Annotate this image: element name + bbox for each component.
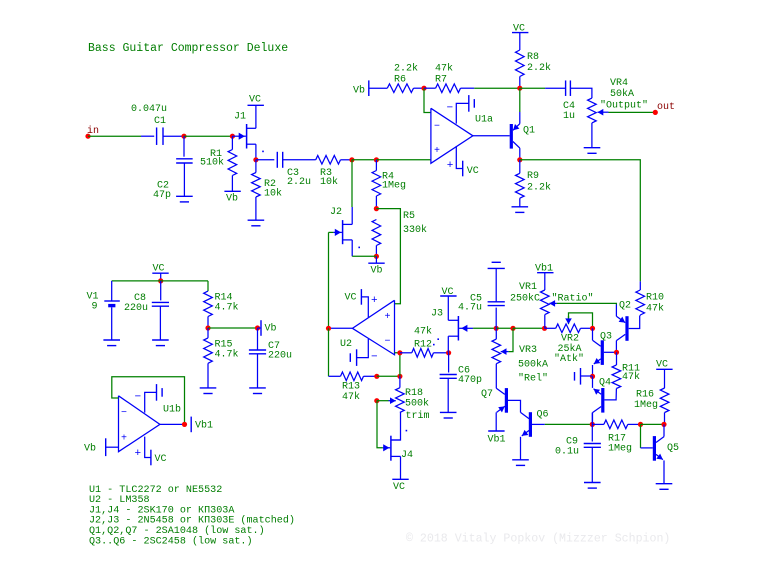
transistor Q6 (NPN) <box>529 412 532 437</box>
capacitor C6 <box>448 353 450 373</box>
wire in to C1 <box>88 135 141 137</box>
svg-text:−: − <box>121 408 127 419</box>
svg-text:Vb: Vb <box>226 193 238 205</box>
svg-text:out: out <box>657 102 675 113</box>
transistor J1 <box>232 135 246 137</box>
node R8-Q1 <box>517 86 522 91</box>
resistor R17 <box>592 423 604 425</box>
svg-text:+: + <box>385 312 391 323</box>
svg-text:R8: R8 <box>527 52 539 63</box>
svg-text:J2: J2 <box>330 207 342 218</box>
node VC rail <box>158 278 163 283</box>
node C1-C2 <box>181 134 186 139</box>
power flag VC above J1 <box>255 105 257 128</box>
svg-text:+: + <box>135 448 142 460</box>
svg-text:Q3..Q6 - 2SC2458 (low sat.): Q3..Q6 - 2SC2458 (low sat.) <box>89 535 253 547</box>
svg-text:"Output": "Output" <box>600 100 648 112</box>
potentiometer VR1 <box>541 290 550 315</box>
resistor R4 <box>375 160 377 171</box>
svg-text:Q1,Q2,Q7 - 2SA1048 (low sat.): Q1,Q2,Q7 - 2SA1048 (low sat.) <box>89 525 265 537</box>
svg-text:47k: 47k <box>435 63 453 75</box>
transistor J2 <box>329 231 334 233</box>
svg-text:10k: 10k <box>320 176 338 188</box>
svg-text:Vb: Vb <box>265 323 277 335</box>
node R14-R15 <box>205 325 210 330</box>
svg-text:Vb: Vb <box>353 85 365 97</box>
resistor R2 <box>255 160 257 173</box>
mark near J4 <box>406 430 408 432</box>
mark near J2 <box>358 247 360 249</box>
svg-text:47k: 47k <box>646 303 664 315</box>
svg-text:2.2k: 2.2k <box>527 182 551 194</box>
node R13-R18 <box>374 374 379 379</box>
svg-text:330k: 330k <box>403 224 427 236</box>
svg-text:0.1u: 0.1u <box>555 447 579 458</box>
wire J3 source down <box>447 336 449 353</box>
wire to U1a +input <box>376 159 431 161</box>
svg-text:0.047u: 0.047u <box>131 104 167 115</box>
power flag VC below J4 <box>392 478 408 480</box>
svg-text:+: + <box>447 160 454 172</box>
svg-text:Q2: Q2 <box>619 301 631 312</box>
transistor Q3 (NPN mirrored) <box>601 340 604 365</box>
power flag Vb below R5 <box>375 256 377 263</box>
node VR3 tap <box>510 326 515 331</box>
node R5 bottom <box>374 254 379 259</box>
svg-text:Q5: Q5 <box>667 443 679 454</box>
node Q3-Q4 emitters <box>590 374 595 379</box>
svg-text:© 2018 Vitaly Popkov (Mizzzer: © 2018 Vitaly Popkov (Mizzzer Schpion) <box>406 533 670 546</box>
power flag Vb at U1b input <box>105 438 107 456</box>
wire C1 to J1 gate <box>184 135 232 137</box>
svg-text:Vb1: Vb1 <box>195 420 213 432</box>
svg-text:Q4: Q4 <box>599 378 611 389</box>
resistor R13 <box>329 375 341 377</box>
svg-text:"Rel": "Rel" <box>518 373 548 385</box>
node VR2 right <box>590 326 595 331</box>
resistor R16 <box>660 388 669 413</box>
potentiometer VR3 <box>495 328 497 339</box>
node R12-C6-J3 <box>446 350 451 355</box>
wire node to R4 <box>352 159 377 161</box>
wire U2 output <box>329 327 353 329</box>
svg-text:Vb1: Vb1 <box>488 433 506 445</box>
ground Q5 <box>656 483 673 485</box>
svg-text:2.2u: 2.2u <box>287 177 311 188</box>
svg-text:250kC: 250kC <box>510 292 540 304</box>
ground R9 <box>512 206 529 208</box>
wire J4 source to VC flag <box>400 456 402 479</box>
resistor R14 <box>207 281 209 291</box>
power flag Vb at divider <box>258 327 262 329</box>
R18 wiper <box>374 398 379 403</box>
power flag Vb1 below Q7 <box>488 430 504 432</box>
wire VR3 bottom to Q7 collector <box>495 364 497 389</box>
svg-text:J3: J3 <box>431 309 443 320</box>
ground VR4 <box>584 147 601 149</box>
resistor R15 <box>207 328 209 338</box>
port in <box>85 134 90 139</box>
ground V1 <box>103 339 120 341</box>
svg-text:in: in <box>87 125 99 137</box>
ground C6 <box>440 411 457 413</box>
U2 top power pin VC <box>361 297 368 317</box>
wire J3 gate row <box>473 327 496 329</box>
wire R18 node down to J4 gate <box>377 401 383 448</box>
wire to Vb flag <box>208 327 258 329</box>
svg-text:Q6: Q6 <box>537 410 549 421</box>
capacitor C9 <box>591 424 593 441</box>
node R4 top <box>374 157 379 162</box>
node R18 top <box>397 374 402 379</box>
svg-text:+: + <box>434 146 440 157</box>
VR2 wiper wire <box>569 313 593 328</box>
transistor Q1 (PNP) <box>510 124 513 149</box>
svg-text:4.7k: 4.7k <box>215 349 239 361</box>
svg-text:1Meg: 1Meg <box>608 444 632 455</box>
svg-text:Q1: Q1 <box>523 126 535 137</box>
node R16 bottom <box>661 422 666 427</box>
wire Q4 emitter column <box>591 413 593 425</box>
U1a bottom power pin VC <box>456 146 462 168</box>
resistor R5 <box>372 220 381 246</box>
resistor R9 <box>519 160 521 174</box>
svg-text:47k: 47k <box>342 391 360 403</box>
resistor R10 <box>636 290 645 315</box>
wire U1b output <box>160 423 185 425</box>
wire to R16 node <box>641 423 665 425</box>
potentiometer VR4 <box>588 98 597 123</box>
svg-text:R6: R6 <box>394 75 406 86</box>
svg-text:1Meg: 1Meg <box>634 400 658 411</box>
svg-text:VC: VC <box>249 95 261 106</box>
svg-text:R9: R9 <box>527 171 539 182</box>
svg-text:Vb: Vb <box>371 265 383 277</box>
resistor R11 <box>616 352 618 365</box>
ground R15 <box>200 387 217 389</box>
svg-text:"Atk": "Atk" <box>554 353 584 365</box>
VR4 wiper <box>598 111 609 113</box>
svg-text:VC: VC <box>155 454 167 465</box>
port out <box>653 110 658 115</box>
wire R4R5 node to U2 +input <box>376 209 400 304</box>
svg-text:10k: 10k <box>264 188 282 200</box>
capacitor C5 <box>495 308 497 329</box>
ground C9 <box>584 482 601 484</box>
capacitor C8 <box>160 281 162 301</box>
node R17-Q5 <box>638 422 643 427</box>
svg-text:−: − <box>371 352 378 364</box>
svg-text:47k: 47k <box>622 371 640 383</box>
wire R18 bottom to J4 drain <box>392 412 401 440</box>
svg-text:VR1: VR1 <box>519 282 537 293</box>
node Q3 base <box>614 350 619 355</box>
svg-text:R10: R10 <box>646 292 664 303</box>
svg-text:1u: 1u <box>563 111 575 122</box>
svg-text:2.2k: 2.2k <box>394 63 418 75</box>
node R3-J2drain <box>349 157 354 162</box>
node U2 -input <box>397 350 402 355</box>
svg-text:R13: R13 <box>342 382 360 393</box>
node U2 output <box>326 326 331 331</box>
svg-text:VC: VC <box>467 166 479 177</box>
node Vb tap <box>255 325 260 330</box>
transistor J4 <box>383 447 390 449</box>
svg-text:47k: 47k <box>414 325 432 337</box>
svg-text:Bass Guitar Compressor Deluxe: Bass Guitar Compressor Deluxe <box>88 42 288 55</box>
transistor Q2 (PNP) <box>625 316 628 341</box>
wire to VR1 bottom <box>513 327 545 329</box>
resistor R7 <box>424 87 436 89</box>
ground C2 <box>176 195 193 197</box>
svg-text:R12: R12 <box>414 340 432 351</box>
transistor Q7 (PNP) <box>505 388 508 413</box>
resistor R1 <box>231 136 233 149</box>
node Q1 collector <box>517 157 522 162</box>
wire VR4 wiper to out <box>609 111 656 113</box>
node J1 source <box>253 157 258 162</box>
resistor R8 <box>516 50 525 77</box>
svg-text:U1a: U1a <box>475 115 493 126</box>
svg-text:VC: VC <box>393 482 405 493</box>
U2 bottom power pin <box>357 339 369 358</box>
svg-text:Q7: Q7 <box>481 389 493 400</box>
resistor R6 <box>387 84 413 93</box>
U1b top power pin <box>145 392 157 412</box>
svg-text:470p: 470p <box>458 375 482 386</box>
battery V1 <box>111 281 113 301</box>
capacitor C1 <box>156 127 158 145</box>
node R4-R5 <box>374 206 379 211</box>
svg-text:25kA: 25kA <box>558 343 582 355</box>
mark near R12 <box>433 344 435 346</box>
ground C8 <box>152 339 169 341</box>
U1b feedback wire <box>112 377 185 425</box>
svg-text:VR2: VR2 <box>561 333 579 344</box>
svg-text:U1b: U1b <box>163 404 181 416</box>
svg-text:47p: 47p <box>153 190 171 201</box>
svg-text:R18: R18 <box>405 388 423 399</box>
node C5 <box>494 326 499 331</box>
power flag Vb at R6 <box>368 80 370 96</box>
svg-text:J1: J1 <box>234 112 246 123</box>
svg-text:4.7u: 4.7u <box>458 302 482 313</box>
node rail C9 <box>590 422 595 427</box>
svg-text:50kA: 50kA <box>610 88 634 100</box>
ground above C5 <box>488 267 505 269</box>
svg-text:Vb: Vb <box>84 443 96 455</box>
transistor Q4 (NPN mirrored, emitter up) <box>601 388 604 413</box>
capacitor C2 <box>183 136 185 157</box>
svg-text:−: − <box>434 122 440 133</box>
svg-text:500kA: 500kA <box>518 358 548 370</box>
node VR1 bottom <box>542 326 547 331</box>
U1a top power pin <box>456 103 469 123</box>
wire U1a output to Q1 base <box>473 135 510 137</box>
wire feedback to U1a -input <box>424 88 431 112</box>
wire J2 gate down to U2 output <box>328 232 330 328</box>
node Vb1 out <box>182 422 187 427</box>
svg-text:9: 9 <box>92 302 98 313</box>
svg-text:2.2k: 2.2k <box>527 62 551 74</box>
node J1 gate <box>230 134 235 139</box>
ground R2 <box>248 219 265 221</box>
transistor J3 (mirrored) <box>457 316 459 341</box>
svg-text:U2: U2 <box>340 339 352 350</box>
svg-text:220u: 220u <box>124 303 148 314</box>
mark near J1 <box>262 151 264 153</box>
op-amp U2 (mirrored) <box>352 300 394 355</box>
resistor R3 <box>316 156 341 165</box>
wire J2 drain up <box>351 207 353 224</box>
wire R13 node to R18 top <box>377 375 400 377</box>
svg-text:J2,J3 - 2N5458 or КП303Е (matc: J2,J3 - 2N5458 or КП303Е (matched) <box>89 515 295 527</box>
transistor Q5 (NPN) <box>653 436 656 461</box>
rail wire <box>112 280 208 282</box>
power flag Vb1 at U1b output <box>190 417 192 433</box>
svg-text:J4: J4 <box>401 450 413 461</box>
wire J2 source to R5 bottom <box>351 240 353 256</box>
wire C5 node to VR3 tap <box>496 327 513 329</box>
node R6-R7 <box>421 86 426 91</box>
svg-text:220u: 220u <box>268 351 292 362</box>
svg-text:−: − <box>385 337 391 348</box>
VR3 wiper <box>508 328 513 351</box>
svg-text:VC: VC <box>345 293 357 304</box>
svg-text:+: + <box>121 434 127 445</box>
wire J1 source to node <box>255 144 257 160</box>
svg-text:VR4: VR4 <box>610 78 628 89</box>
wire U2 out down to R13 <box>328 328 330 376</box>
svg-text:510k: 510k <box>200 157 224 169</box>
svg-text:1Meg: 1Meg <box>382 181 406 192</box>
svg-text:trim: trim <box>406 410 430 422</box>
ground C7 <box>249 387 266 389</box>
svg-text:4.7k: 4.7k <box>215 302 239 314</box>
VR1 wiper <box>549 302 557 304</box>
battery flag at emitters <box>581 375 593 377</box>
svg-text:Q3: Q3 <box>600 332 612 343</box>
wire Q6 base to rail <box>545 423 593 425</box>
op-amp U1a <box>431 108 473 163</box>
svg-text:C1: C1 <box>154 116 166 127</box>
potentiometer VR2 <box>545 327 556 329</box>
svg-text:+: + <box>371 295 378 307</box>
wire Q5 base <box>640 424 642 448</box>
resistor R18 trim <box>399 376 401 387</box>
capacitor C4 <box>520 87 545 89</box>
svg-text:−: − <box>135 392 142 404</box>
svg-text:VR3: VR3 <box>519 345 537 356</box>
svg-text:−: − <box>447 103 454 115</box>
svg-text:"Ratio": "Ratio" <box>552 292 594 304</box>
svg-text:R7: R7 <box>435 75 447 86</box>
power flag Vb below R1 <box>224 190 240 192</box>
mark near J3 <box>437 338 439 340</box>
svg-text:R5: R5 <box>403 211 415 222</box>
wire up to U2 -input <box>395 353 400 377</box>
wire VR1 wiper to Q2 emitter <box>557 303 617 304</box>
svg-text:R16: R16 <box>636 390 654 401</box>
svg-text:500k: 500k <box>405 398 429 410</box>
U1b bottom power pin VC <box>145 437 151 458</box>
op-amp U1b <box>119 396 160 452</box>
wire Q1 collector feedback to R10 <box>520 160 641 282</box>
wire R7 to R8 node <box>474 87 520 89</box>
resistor R12 <box>400 352 412 354</box>
capacitor C3 <box>256 159 274 161</box>
ground Q6 <box>512 459 529 461</box>
capacitor C7 <box>257 328 259 350</box>
